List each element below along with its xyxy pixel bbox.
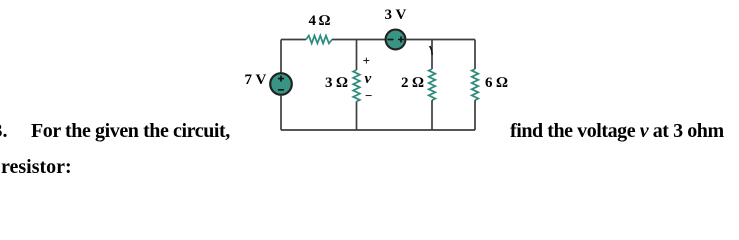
problem number 3. (clipped at left edge) bbox=[0, 120, 8, 143]
problem text left bbox=[31, 120, 230, 143]
current arrow on 2ohm branch bbox=[429, 46, 433, 55]
circuit schematic bbox=[0, 0, 739, 192]
wire 6ohm right branch lower bbox=[474, 100, 476, 130]
label 4 ohm bbox=[309, 13, 330, 30]
wire top rail mid segment bbox=[332, 39, 385, 41]
wire 3ohm branch upper bbox=[356, 40, 358, 71]
voltage source V2 3V circle bbox=[386, 30, 406, 50]
V2 minus mark bbox=[388, 39, 394, 41]
wire 3ohm branch lower bbox=[356, 102, 358, 131]
wire 2ohm branch upper bbox=[431, 40, 433, 70]
voltage source V1 7V circle bbox=[270, 73, 292, 95]
wire 2ohm branch lower bbox=[431, 100, 433, 130]
resistor R3 2ohm zigzag bbox=[429, 69, 436, 100]
wire top rail left segment bbox=[281, 39, 306, 41]
label 3 V bbox=[385, 7, 407, 24]
node v minus mark bbox=[365, 88, 372, 104]
V2 plus mark bbox=[398, 37, 404, 43]
label 3 ohm bbox=[325, 75, 348, 92]
label 7 V bbox=[245, 72, 267, 89]
wire bottom rail bbox=[281, 129, 475, 131]
wire 6ohm right branch upper bbox=[474, 40, 476, 70]
resistor R1 4ohm zigzag bbox=[306, 36, 332, 44]
wire left branch upper bbox=[280, 40, 282, 74]
problem text line 2 bbox=[1, 156, 72, 179]
label 6 ohm bbox=[485, 75, 508, 92]
node v plus mark bbox=[363, 53, 370, 69]
V1 minus mark bbox=[278, 89, 284, 91]
label 2 ohm bbox=[401, 75, 424, 92]
resistor R2 3ohm zigzag bbox=[353, 70, 360, 102]
node v label bbox=[365, 71, 372, 88]
wire top rail right segment bbox=[406, 39, 475, 41]
resistor R4 6ohm zigzag bbox=[472, 69, 479, 100]
V1 plus mark bbox=[278, 76, 284, 82]
problem text right bbox=[510, 120, 724, 143]
wire left branch lower bbox=[280, 95, 282, 130]
